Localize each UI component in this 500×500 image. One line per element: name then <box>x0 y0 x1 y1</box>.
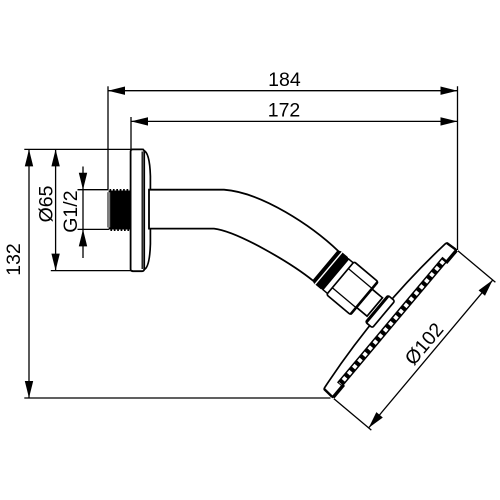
thread serration top <box>110 189 131 191</box>
dim Ø102 arrow lower <box>365 412 382 430</box>
dim 184 extension left <box>107 86 109 189</box>
head disc <box>319 238 458 398</box>
dim 172 arrow right <box>441 117 458 125</box>
thread pipe G1/2 <box>109 191 131 230</box>
spray nozzles <box>340 261 443 384</box>
dim 172 extension left <box>130 117 132 149</box>
dim Ø65 arrow top <box>51 149 59 166</box>
collar ring <box>365 295 394 328</box>
face rim upper <box>446 250 456 262</box>
dim G1/2 extension lower <box>78 228 109 230</box>
flange inner edge line <box>141 152 143 270</box>
white ring <box>323 259 353 293</box>
dim Ø102 line <box>369 280 493 428</box>
svg-text:184: 184 <box>268 69 301 91</box>
thread chamfer end <box>107 192 110 227</box>
nut trailing edge <box>351 282 378 314</box>
svg-text:Ø65: Ø65 <box>35 185 57 222</box>
dim Ø65 line <box>55 149 57 270</box>
disc end edge lower <box>324 389 334 397</box>
dim G1/2 arrow upper <box>79 173 87 190</box>
dim G1/2 arrow lower <box>79 229 87 246</box>
thread serration bottom <box>110 229 130 231</box>
dim 184 arrow left <box>108 87 125 95</box>
dim Ø65 extension bottom <box>51 270 133 272</box>
dim 132 arrow top <box>25 149 33 166</box>
dim 184 arrow right <box>441 87 458 95</box>
dim G1/2 extension upper <box>78 189 109 191</box>
shower head group <box>264 192 496 431</box>
black ring white split <box>315 252 342 284</box>
top extension line <box>24 148 144 150</box>
wall flange dome <box>144 151 151 270</box>
dim 132 line <box>28 149 30 398</box>
dim 132 arrow bottom <box>25 381 33 398</box>
dim 184 line <box>108 90 458 92</box>
neck <box>356 289 383 317</box>
svg-text:132: 132 <box>3 243 25 276</box>
wall flange plate <box>131 149 145 271</box>
dim Ø102 arrow upper <box>479 277 496 295</box>
dim 172 arrow left <box>131 117 148 125</box>
collar leading edge <box>366 296 388 322</box>
dim Ø102 extension line upper <box>458 251 496 282</box>
cone nut <box>326 262 378 315</box>
svg-text:G1/2: G1/2 <box>60 190 82 232</box>
dim 184/172 extension right <box>457 86 459 250</box>
svg-text:172: 172 <box>268 100 301 122</box>
black ring <box>312 250 349 291</box>
nut facet line 1 <box>349 269 372 289</box>
face rim lower <box>333 385 343 397</box>
dim Ø65 arrow bottom <box>51 254 59 271</box>
dim Ø102 extension line lower <box>334 399 372 430</box>
spray face strip <box>337 257 448 387</box>
disc end edge upper <box>447 243 457 251</box>
dim 172 line <box>131 120 458 122</box>
dim G1/2 line <box>82 167 84 259</box>
bottom baseline <box>24 397 330 399</box>
nut facet line 2 <box>333 288 356 308</box>
shower arm <box>149 190 338 281</box>
